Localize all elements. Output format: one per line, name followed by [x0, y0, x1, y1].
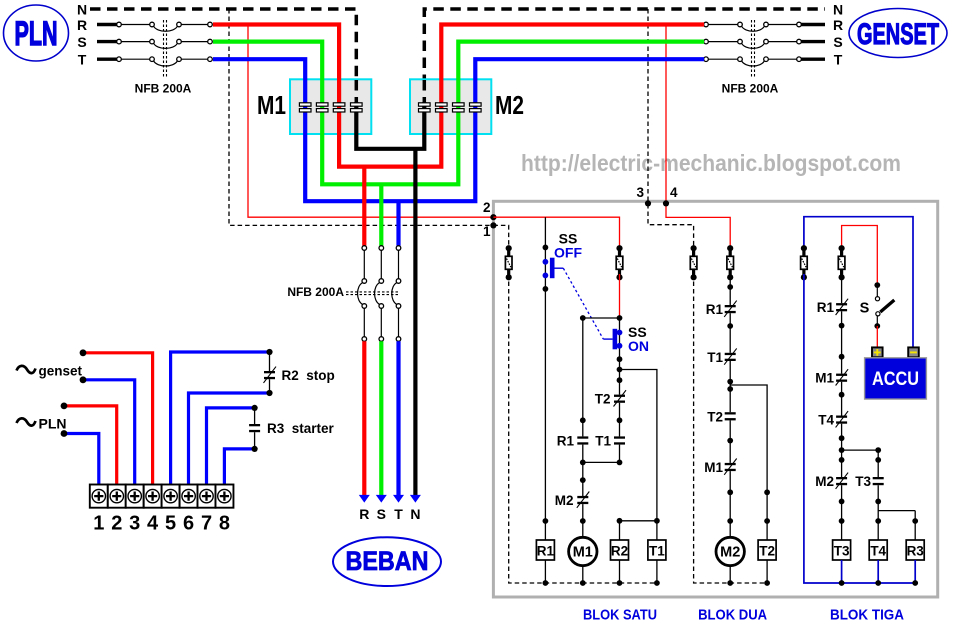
wire control tap dashed from PLN N to node 1 [229, 9, 493, 225]
label OFF [554, 245, 582, 261]
wire red rail node2 to fuse F1 [493, 217, 619, 248]
wire control tap red from PLN R to node 2 [248, 25, 493, 218]
coil R2 [611, 540, 629, 560]
wire junction horizontal to M1 branch [580, 315, 623, 321]
wire R1 coil feed [543, 518, 549, 540]
wire N dashed segment inside M2 [423, 80, 427, 102]
coil T3 [833, 540, 851, 560]
svg-text:M2: M2 [815, 474, 834, 489]
svg-text:2: 2 [483, 200, 491, 215]
wire M1 contact to coil M2 [727, 471, 733, 537]
label M1 [257, 90, 286, 120]
svg-text:N: N [77, 2, 87, 18]
label R1 (blok tiga) [817, 300, 835, 315]
contact T3 NO blok tiga [873, 477, 884, 485]
svg-text:T1: T1 [649, 544, 665, 559]
label T3 (blok tiga contact) [855, 474, 871, 489]
wire T3 contact to junction R3 [875, 485, 881, 540]
wire load S green drop [379, 184, 383, 246]
wire T blue PLN-M1-M2-GENSET [213, 59, 704, 201]
label terminal 2 [111, 513, 122, 535]
label S [860, 301, 870, 317]
junction dots T2 coil branch [764, 489, 770, 523]
wire red fuse F1 to junction [619, 274, 621, 318]
svg-text:R2 stop: R2 stop [282, 368, 335, 383]
breaker NFB 200A load pole S [375, 246, 384, 497]
label SS (ON) [628, 324, 647, 340]
svg-text:genset: genset [39, 364, 83, 379]
wire control tap dashed from GENSET N to node 3 [648, 9, 694, 248]
label M2 (blok satu contact) [555, 493, 574, 508]
coil T1 [648, 540, 666, 560]
contact R1 NO blok satu [577, 436, 588, 444]
breaker NFB 200A load pole T [392, 246, 401, 497]
svg-text:BLOK DUA: BLOK DUA [698, 607, 767, 624]
svg-text:T4: T4 [818, 413, 834, 428]
coil T2 [758, 540, 776, 560]
svg-text:T3: T3 [834, 544, 850, 559]
contact R1 NC blok dua [724, 301, 737, 317]
svg-text:3: 3 [129, 513, 140, 535]
wire terminal 7 blue to R3 contact [207, 405, 258, 485]
label terminal 6 [183, 513, 194, 535]
svg-text:R: R [77, 17, 87, 33]
contact M2 pole R [436, 103, 448, 112]
svg-text:5: 5 [165, 513, 176, 535]
svg-text:R: R [833, 17, 843, 33]
svg-text:7: 7 [201, 513, 212, 535]
wire R1 to M1 blok tiga [839, 311, 845, 373]
wire coil bottoms to negative rail blok tiga [839, 560, 918, 586]
label T1 (blok dua) [707, 350, 723, 365]
contact T1 NO blok satu [614, 436, 625, 444]
wire load N black drop [413, 149, 417, 497]
wire T2 to M1 blok dua [727, 420, 733, 463]
label R3 starter [267, 421, 335, 436]
breaker NFB 200A PLN pole S [97, 40, 117, 43]
svg-text:T4: T4 [870, 544, 886, 559]
wire red switch S to battery positive [876, 326, 878, 348]
wire T1 contact to junction [617, 445, 623, 466]
label T (load) [394, 506, 403, 522]
wire control tap red from GENSET R to node 4 [666, 25, 730, 249]
breaker NFB 200A PLN pole T [97, 58, 117, 61]
coil R3 [906, 540, 924, 560]
svg-text:1: 1 [93, 513, 104, 535]
wire terminal 5 blue to R2 contact [171, 349, 273, 485]
svg-text:PLN: PLN [39, 416, 67, 432]
junction dot SS OFF bottom [543, 286, 549, 292]
svg-text:T1: T1 [707, 350, 723, 365]
contact M2 NC blok satu [577, 492, 590, 508]
fuse blok satu neutral [505, 245, 512, 280]
label T (GENSET side) [834, 52, 843, 68]
fuse blok dua neutral [690, 245, 697, 280]
wire dashed rail node1 to neutral branch [493, 225, 508, 248]
node 1 [483, 222, 497, 239]
coil M2 [716, 537, 744, 565]
wire M1 to T4 blok tiga [839, 382, 845, 416]
contact M2 NC blok tiga [836, 473, 849, 489]
contact T2 NO blok dua [725, 412, 736, 420]
wire branch to T2 coil [730, 385, 767, 540]
fuse blok dua phase F2 [727, 245, 734, 280]
contact M1 NC blok tiga [836, 369, 849, 385]
svg-text:T2: T2 [595, 392, 611, 407]
label T2 (blok dua) [707, 409, 723, 424]
fuse blok satu phase F1 [616, 245, 623, 280]
contact M1 pole R [333, 103, 345, 112]
svg-text:BLOK SATU: BLOK SATU [583, 607, 657, 624]
label BLOK DUA [698, 607, 767, 624]
svg-text:M1: M1 [257, 90, 286, 120]
selector link SS OFF to SS ON dashed blue [563, 268, 603, 339]
wire blue battery negative rail top [804, 217, 913, 348]
svg-text:ON: ON [628, 338, 649, 354]
svg-text:R1: R1 [537, 544, 555, 559]
coil M1 [569, 537, 597, 565]
label T1 (blok satu contact) [595, 434, 611, 449]
svg-text:N: N [410, 506, 420, 522]
label ~ genset [17, 364, 83, 379]
wire load T blue drop [396, 201, 400, 246]
junction dot SS OFF top [543, 245, 549, 251]
label T4 (blok tiga) [818, 413, 834, 428]
svg-text:BEBAN: BEBAN [346, 546, 429, 576]
node 4 [663, 185, 678, 206]
svg-text:BLOK TIGA: BLOK TIGA [830, 607, 904, 624]
wire junction to T3 branch [842, 447, 882, 477]
wire terminal 4 red to genset [80, 349, 153, 484]
node 3 [636, 185, 651, 206]
label S (PLN side) [77, 34, 86, 50]
svg-text:R3: R3 [907, 544, 925, 559]
label terminal 1 [93, 513, 104, 535]
wire terminal 6 blue to R2 contact [189, 390, 273, 485]
breaker NFB 200A PLN mechanical tie [164, 20, 167, 77]
label R1 (blok satu contact) [557, 434, 575, 449]
contact M2 pole S [453, 103, 465, 112]
svg-text:M1: M1 [573, 545, 593, 561]
fuse blok tiga negative [801, 245, 808, 280]
svg-text:T1: T1 [595, 434, 611, 449]
svg-text:T3: T3 [855, 474, 871, 489]
svg-text:8: 8 [219, 513, 230, 535]
svg-text:4: 4 [670, 185, 678, 200]
contactor M1 box [290, 79, 371, 134]
wire SS OFF branch [544, 217, 546, 521]
label R (load) [359, 506, 369, 522]
label R2 stop [282, 368, 335, 383]
label N (load) [410, 506, 420, 522]
contact R3 starter NO [249, 408, 260, 449]
svg-text:1: 1 [483, 224, 491, 239]
wire terminal 1 blue to PLN [61, 430, 99, 484]
coil R1 [536, 540, 554, 560]
wire N black link M1-M2 [356, 102, 424, 149]
svg-text:M2: M2 [555, 493, 574, 508]
wire N GENSET dashed to contactor M2 [424, 9, 825, 102]
label NFB 200A (GENSET) [722, 82, 779, 96]
contact M2 pole N [419, 103, 431, 112]
terminal strip [90, 485, 234, 508]
wire R red PLN-M1-M2-GENSET [213, 25, 704, 167]
breaker NFB 200A GENSET pole S [704, 39, 802, 48]
label S (GENSET side) [833, 34, 842, 50]
svg-text:M1: M1 [704, 460, 723, 475]
wire blok tiga main chain top [841, 274, 843, 303]
svg-text:NFB 200A: NFB 200A [287, 285, 344, 299]
svg-text:M2: M2 [495, 90, 524, 120]
svg-text:PLN: PLN [15, 15, 58, 53]
source GENSET ellipse [849, 9, 947, 58]
svg-text:T: T [394, 506, 403, 522]
label M1 (blok tiga) [815, 371, 834, 386]
svg-text:2: 2 [111, 513, 122, 535]
wire coil bottoms to neutral blok satu [543, 560, 660, 586]
svg-text:S: S [377, 506, 386, 522]
load BEBAN ellipse [333, 537, 441, 586]
label BLOK SATU [583, 607, 657, 624]
breaker NFB 200A PLN pole R [97, 23, 117, 26]
wire dashed blok satu neutral down and bottom rail [509, 274, 657, 583]
label T2 (blok satu) [595, 392, 611, 407]
wire terminal 8 blue to R3 contact [224, 446, 257, 485]
svg-text:M1: M1 [815, 371, 834, 386]
svg-text:GENSET: GENSET [857, 18, 939, 51]
svg-text:4: 4 [147, 513, 159, 535]
wire T4 to junction M2/T3 [839, 424, 845, 477]
breaker NFB 200A GENSET mechanical tie [752, 20, 755, 77]
wire M2 contact to coil M1 [580, 504, 586, 537]
label M2 [495, 90, 524, 120]
svg-text:S: S [860, 301, 870, 317]
wire junction R1-T1 bottoms [580, 445, 620, 496]
wire M1 branch vertical upper [580, 318, 586, 436]
svg-text:N: N [833, 2, 843, 18]
wire branch to R2/T1 coils [620, 370, 657, 521]
label R1 (blok dua) [706, 302, 724, 317]
label M1 (blok dua) [704, 460, 723, 475]
breaker NFB 200A GENSET pole T [704, 57, 802, 66]
fuse blok tiga positive [838, 245, 845, 280]
contact R1 NC blok tiga [836, 299, 849, 315]
switch S [874, 282, 894, 329]
label ON [628, 338, 649, 354]
svg-text:T2: T2 [707, 409, 723, 424]
svg-text:M2: M2 [720, 545, 740, 561]
wire junction to R3 branch [878, 511, 918, 540]
svg-text:T2: T2 [759, 544, 775, 559]
label ~ PLN [17, 416, 67, 432]
wire T2 branch [617, 370, 623, 395]
source PLN ellipse [4, 5, 69, 61]
coil T4 [869, 540, 887, 560]
wire N dashed segment inside M1 [355, 80, 359, 102]
svg-text:ACCU: ACCU [872, 369, 919, 390]
svg-text:R2: R2 [611, 544, 628, 559]
wire red battery positive to fuse [842, 226, 878, 285]
svg-text:3: 3 [636, 185, 644, 200]
svg-text:T: T [78, 52, 87, 68]
wire coil bottoms to neutral blok dua [727, 560, 770, 586]
contact T4 NC blok tiga [836, 411, 849, 427]
wire dashed blok dua neutral down and bottom rail [694, 274, 768, 583]
label T (PLN side) [78, 52, 87, 68]
wire terminal 2 red to PLN [61, 403, 117, 485]
svg-text:OFF: OFF [554, 245, 582, 261]
svg-text:http://electric-mechanic.blogs: http://electric-mechanic.blogspot.com [521, 150, 901, 176]
svg-text:R1: R1 [557, 434, 575, 449]
wire M2 contact to coil T3 [839, 485, 845, 540]
label R (PLN side) [77, 17, 87, 33]
svg-text:6: 6 [183, 513, 194, 535]
contact M1 pole T [299, 103, 311, 112]
label BLOK TIGA [830, 607, 904, 624]
svg-text:S: S [833, 34, 842, 50]
label R (GENSET side) [833, 17, 843, 33]
arrow load R [359, 495, 370, 503]
arrow load T [393, 495, 404, 503]
contact T2 NC blok satu [614, 390, 627, 406]
contact M1 pole N [351, 103, 363, 112]
svg-text:R: R [359, 506, 369, 522]
label SS (OFF) [559, 231, 578, 247]
label terminal 5 [165, 513, 176, 535]
label NFB 200A (PLN) [135, 82, 192, 96]
contact M1 NC blok dua [724, 459, 737, 475]
watermark http://electric-mechanic.blogspot.com [521, 150, 901, 176]
wire blok dua main chain top [727, 274, 733, 305]
wire S green PLN-M1-M2-GENSET [213, 42, 704, 185]
svg-text:R1: R1 [706, 302, 724, 317]
svg-text:R3 starter: R3 starter [267, 421, 335, 436]
wire N PLN dashed to contactor M1 [90, 9, 356, 102]
selector switch SS OFF [543, 258, 564, 279]
label terminal 3 [129, 513, 140, 535]
label terminal 7 [201, 513, 212, 535]
contactor M2 box [410, 79, 491, 134]
arrow load N [410, 495, 421, 503]
breaker NFB 200A load mechanical tie [346, 292, 400, 295]
contact R2 stop NC [264, 352, 277, 393]
svg-text:NFB 200A: NFB 200A [135, 82, 192, 96]
wire T1 to T2 blok dua with branch junction [727, 361, 733, 412]
label NFB 200A (load) [287, 285, 344, 299]
svg-text:R1: R1 [817, 300, 835, 315]
node 2 [483, 200, 497, 220]
breaker NFB 200A GENSET pole R [704, 22, 802, 31]
junction dots below SS ON [617, 356, 623, 372]
wire T2 to T1 contact [617, 403, 623, 437]
label S (load) [377, 506, 386, 522]
breaker NFB 200A load pole R [358, 246, 367, 497]
control box frame [493, 201, 937, 597]
wire blue blok tiga left down and bottom rail [804, 274, 915, 583]
wire terminal 3 blue to genset [80, 376, 135, 484]
svg-text:T: T [834, 52, 843, 68]
contact T1 NC blok dua [724, 348, 737, 364]
wire R2/T1 coil junction [617, 518, 660, 540]
svg-text:S: S [77, 34, 86, 50]
selector switch SS ON [603, 318, 622, 370]
label terminal 4 [147, 513, 159, 535]
svg-text:NFB 200A: NFB 200A [722, 82, 779, 96]
label N (GENSET side) [833, 2, 843, 18]
contact M2 pole T [470, 103, 482, 112]
contact M1 pole S [316, 103, 328, 112]
label terminal 8 [219, 513, 230, 535]
wire load R red drop [362, 167, 366, 246]
label N (PLN side) [77, 2, 87, 18]
arrow load S [376, 495, 387, 503]
battery ACCU [865, 347, 927, 399]
wire R1 to T1 blok dua [727, 313, 733, 353]
label M2 (blok tiga) [815, 474, 834, 489]
